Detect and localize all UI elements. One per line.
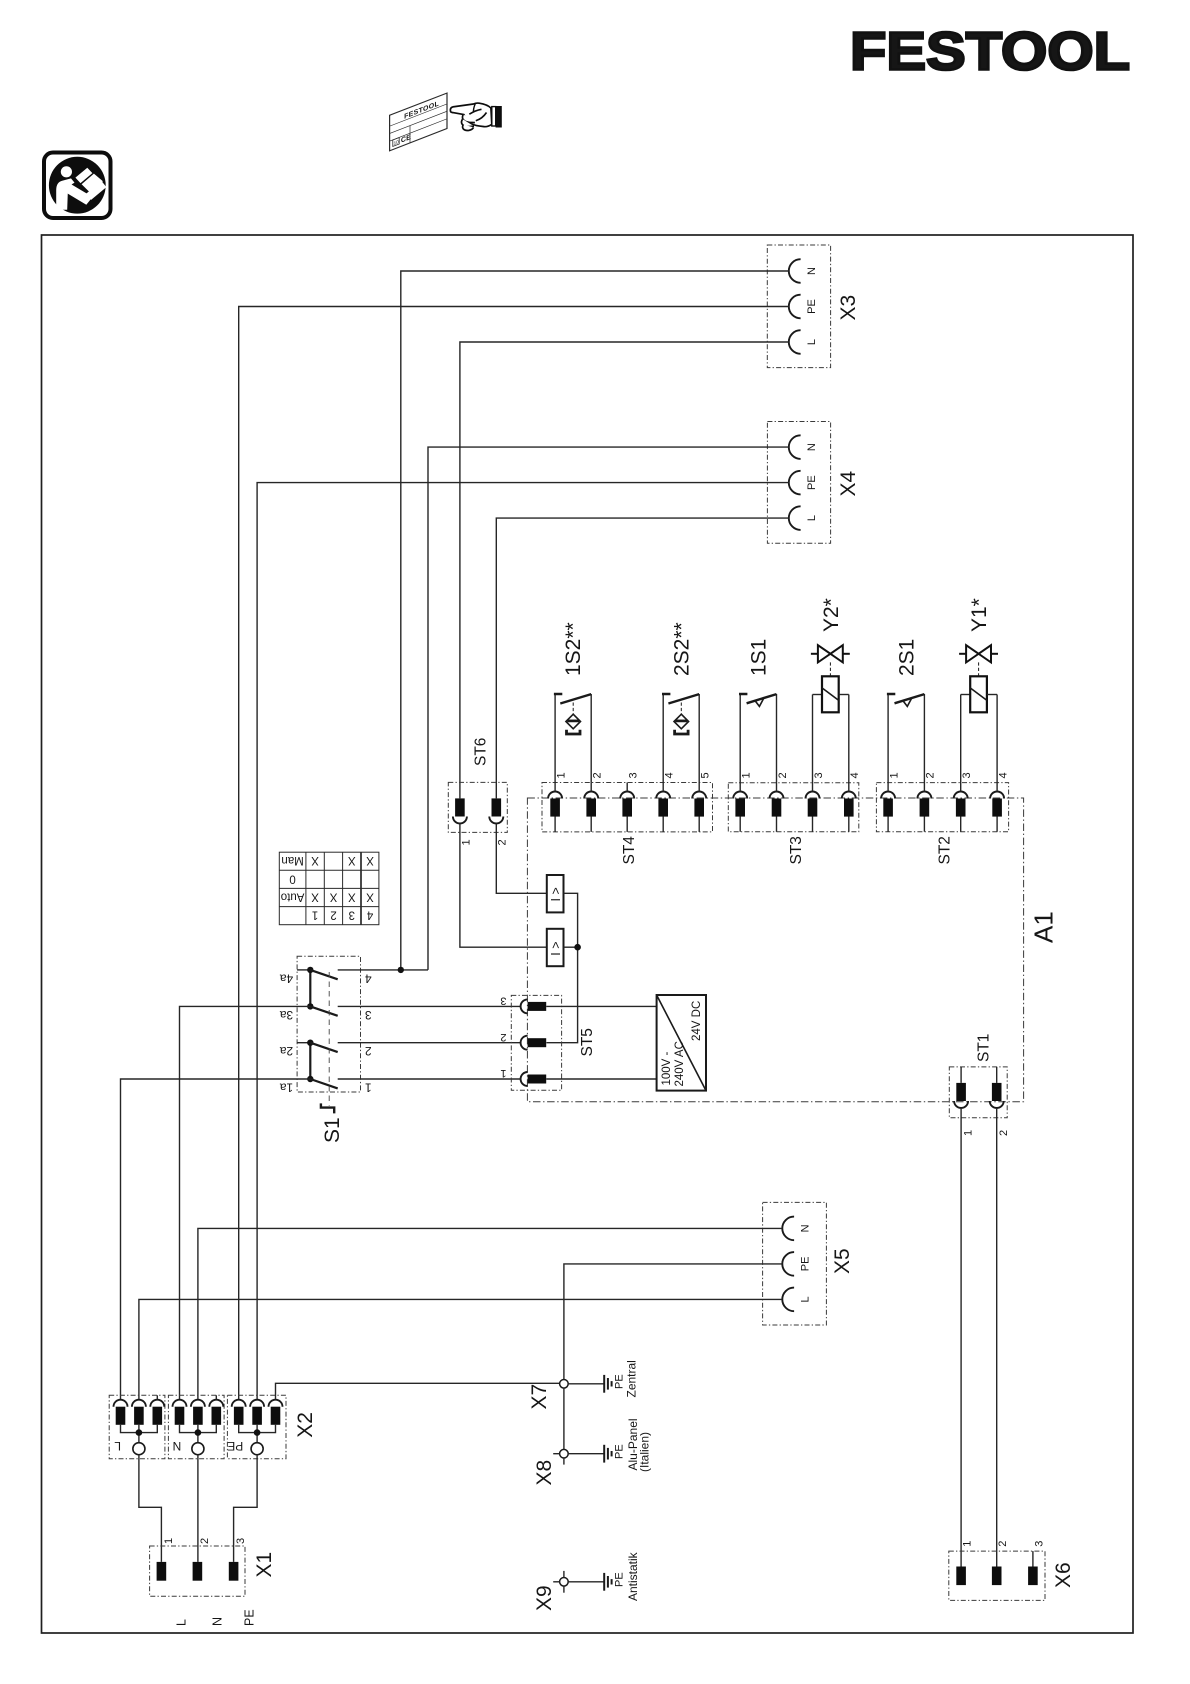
wire ST5-3 to power supply [546, 1005, 656, 1007]
wire X3-PE [239, 307, 789, 1400]
svg-text:2a: 2a [280, 1044, 294, 1058]
svg-text:2: 2 [330, 909, 336, 921]
svg-text:3: 3 [365, 1008, 372, 1022]
wire ST1-2 to X6-2 [996, 1108, 998, 1567]
power supply U1 [657, 995, 706, 1091]
svg-text:1: 1 [555, 772, 567, 778]
svg-text:3: 3 [500, 995, 506, 1007]
solenoid valve Y1* [959, 598, 998, 791]
svg-text:2: 2 [497, 839, 509, 845]
svg-text:1: 1 [962, 1130, 974, 1136]
ground PE Alu-Panel [604, 1445, 611, 1463]
svg-text:1S2**: 1S2** [562, 622, 585, 676]
svg-text:Antistatik: Antistatik [626, 1551, 640, 1601]
junction node F outputs [574, 944, 581, 951]
ground PE Antistatik [604, 1573, 611, 1591]
svg-text:4: 4 [365, 971, 372, 985]
svg-text:1: 1 [500, 1067, 506, 1079]
overcurrent relay F1 I> [547, 875, 564, 912]
svg-text:2S2**: 2S2** [670, 622, 693, 676]
wire X5-PE [564, 1264, 782, 1380]
svg-text:S1: S1 [321, 1117, 344, 1143]
svg-text:3: 3 [235, 1538, 247, 1544]
svg-text:FESTOOL: FESTOOL [850, 22, 1130, 82]
svg-text:PE: PE [806, 475, 818, 490]
svg-text:1: 1 [888, 772, 900, 778]
proximity sensor 1S2** [554, 622, 591, 791]
svg-text:3: 3 [1033, 1541, 1045, 1547]
svg-text:(Italien): (Italien) [638, 1432, 652, 1472]
controller board A1 box [527, 798, 1023, 1102]
connector X3 [767, 245, 860, 368]
svg-text:3a: 3a [280, 1008, 294, 1022]
svg-text:N: N [806, 267, 818, 275]
wire X5-N [198, 1228, 782, 1399]
svg-text:1S1: 1S1 [747, 639, 770, 676]
svg-text:2: 2 [365, 1044, 372, 1058]
connector ST1 [949, 1034, 1010, 1136]
wire ST1-1 to X6-1 [960, 1108, 962, 1567]
svg-text:2: 2 [925, 772, 937, 778]
svg-text:I >: I > [549, 941, 563, 955]
svg-text:X: X [311, 890, 319, 902]
wire X2-L to X1-1 [139, 1455, 162, 1562]
wire S1-3a feed [180, 1006, 311, 1399]
frame border [42, 235, 1134, 1633]
svg-text:PE: PE [227, 1439, 243, 1453]
nameplate label [390, 93, 447, 151]
svg-text:2: 2 [777, 772, 789, 778]
svg-text:2: 2 [997, 1541, 1009, 1547]
svg-text:X: X [311, 854, 319, 866]
wire S1-1a feed [121, 1079, 311, 1400]
svg-text:Auto: Auto [281, 890, 305, 902]
svg-text:X: X [366, 890, 374, 902]
wire F2 output [564, 946, 578, 948]
svg-text:3: 3 [349, 909, 355, 921]
connector X6 [949, 1541, 1075, 1601]
svg-text:A1: A1 [1029, 911, 1059, 943]
svg-text:4: 4 [997, 772, 1009, 778]
svg-text:0: 0 [289, 872, 295, 884]
svg-text:1a: 1a [280, 1080, 294, 1094]
svg-text:ST1: ST1 [976, 1034, 993, 1062]
svg-text:2: 2 [998, 1130, 1010, 1136]
svg-text:1: 1 [365, 1080, 372, 1094]
ground PE Zentral [604, 1375, 611, 1393]
svg-text:X3: X3 [837, 295, 860, 321]
junction X2-PE [254, 1429, 261, 1436]
svg-text:3: 3 [961, 772, 973, 778]
svg-text:1: 1 [312, 909, 318, 921]
svg-text:X: X [329, 890, 337, 902]
svg-text:Y2*: Y2* [820, 598, 843, 632]
svg-text:X: X [348, 854, 356, 866]
wire X4-L [496, 518, 789, 798]
read-manual icon frame [44, 153, 111, 219]
wire X3-N [401, 271, 789, 970]
wire ST5-1 to power supply [546, 1078, 656, 1080]
svg-text:N: N [806, 443, 818, 451]
rotary switch S1 [280, 956, 372, 1143]
solenoid valve Y2* [811, 598, 850, 791]
connector X1 [150, 1538, 276, 1626]
svg-text:1: 1 [962, 1541, 974, 1547]
connector X5 [763, 1202, 854, 1325]
svg-text:24V DC: 24V DC [691, 1001, 703, 1041]
svg-text:4a: 4a [280, 971, 294, 985]
svg-text:ST3: ST3 [788, 836, 805, 864]
svg-text:PE: PE [806, 299, 818, 314]
wire S1-3 to ST5-3 [338, 1005, 521, 1007]
svg-text:X1: X1 [253, 1552, 276, 1578]
svg-text:X6: X6 [1052, 1562, 1075, 1588]
svg-text:5: 5 [700, 772, 712, 778]
svg-text:1: 1 [460, 839, 472, 845]
svg-text:I >: I > [549, 887, 563, 901]
svg-text:PE: PE [243, 1609, 257, 1626]
connector X2 group N [168, 1395, 224, 1458]
svg-text:X4: X4 [837, 470, 860, 496]
terminal X9 [533, 1551, 640, 1611]
connector X2 group L [109, 1395, 165, 1458]
connector ST5 [500, 995, 596, 1091]
svg-text:ST2: ST2 [937, 836, 954, 864]
position switch 2S1 [887, 639, 925, 792]
svg-text:PE: PE [614, 1374, 626, 1389]
connector ST6 [448, 738, 508, 846]
svg-text:2S1: 2S1 [895, 639, 918, 676]
terminal X7 [528, 1360, 639, 1449]
svg-text:X5: X5 [831, 1248, 854, 1274]
wire S1-4 to X4N/X3N [338, 969, 428, 971]
svg-text:X: X [366, 854, 374, 866]
connector ST4 [542, 772, 713, 864]
junction node S1-4/X3N [398, 967, 404, 973]
svg-text:Zentral: Zentral [625, 1360, 639, 1397]
position switch 1S1 [739, 639, 777, 792]
svg-text:2: 2 [500, 1031, 506, 1043]
svg-text:L: L [806, 339, 818, 345]
svg-text:X2: X2 [294, 1412, 317, 1438]
svg-text:L: L [800, 1296, 812, 1302]
wire ST6-2 to relay F1 [496, 824, 547, 894]
svg-text:4: 4 [664, 772, 676, 778]
wire X2-PE3 to X7 [276, 1383, 560, 1399]
svg-text:PE: PE [614, 1444, 626, 1459]
svg-text:L: L [175, 1619, 189, 1626]
svg-text:2: 2 [592, 772, 604, 778]
terminal X8 [533, 1418, 652, 1485]
svg-text:L: L [806, 515, 818, 521]
svg-text:ST4: ST4 [621, 836, 638, 865]
svg-text:3: 3 [628, 772, 640, 778]
svg-text:N: N [800, 1224, 812, 1232]
junction X2-N [195, 1429, 202, 1436]
wire S1-1 to ST5-1 [338, 1078, 521, 1080]
svg-text:X: X [348, 890, 356, 902]
pointing hand [450, 103, 501, 130]
connector ST2 [876, 772, 1009, 864]
wire X3-L [460, 342, 789, 798]
svg-text:2: 2 [199, 1538, 211, 1544]
svg-text:L: L [114, 1439, 121, 1453]
overcurrent relay F2 I> [547, 929, 564, 966]
wire X2-PE to X1-3 [234, 1455, 258, 1562]
svg-text:4: 4 [849, 772, 861, 778]
svg-text:3: 3 [813, 772, 825, 778]
svg-text:ST6: ST6 [473, 738, 490, 766]
svg-text:ST5: ST5 [579, 1028, 596, 1056]
junction X2-L [136, 1429, 143, 1436]
connector X4 [767, 422, 860, 544]
wire X4-N [428, 447, 789, 970]
svg-text:1: 1 [163, 1538, 175, 1544]
wire X5-L [139, 1299, 782, 1399]
wire X4-PE [257, 483, 789, 1400]
svg-text:X8: X8 [533, 1460, 556, 1486]
wire F1 output [546, 893, 577, 1042]
svg-text:PE: PE [800, 1257, 812, 1272]
svg-text:X9: X9 [533, 1585, 556, 1611]
svg-text:Man: Man [281, 854, 303, 866]
svg-text:X7: X7 [528, 1384, 551, 1410]
svg-text:4: 4 [366, 909, 373, 921]
svg-text:N: N [211, 1617, 225, 1626]
svg-text:PE: PE [614, 1572, 626, 1587]
svg-text:100V -: 100V - [661, 1051, 673, 1085]
proximity sensor 2S2** [662, 622, 699, 791]
svg-text:240V AC: 240V AC [674, 1041, 686, 1086]
svg-text:N: N [173, 1439, 182, 1453]
svg-text:1: 1 [741, 772, 753, 778]
wire X2-N to X1-2 [197, 1455, 199, 1562]
connector X2 group PE [227, 1395, 286, 1458]
wire ST6-1 to relay F2 [460, 824, 547, 948]
svg-text:Y1*: Y1* [968, 598, 991, 632]
wire S1-2 to ST5-2 [338, 1042, 521, 1044]
connector ST3 [728, 772, 861, 864]
switch position table [279, 852, 379, 925]
